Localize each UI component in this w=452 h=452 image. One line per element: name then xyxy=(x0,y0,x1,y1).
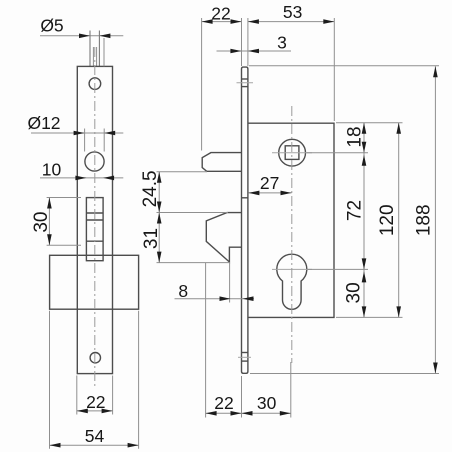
faceplate (right view) xyxy=(242,67,248,373)
wire: 31 extension line at hook tip xyxy=(157,262,231,264)
wire: 120 dimension line xyxy=(398,123,400,318)
wire: bottom extension lines xyxy=(205,263,207,418)
svg-text:24.5: 24.5 xyxy=(140,170,161,207)
latch bolt (upper hook) xyxy=(202,153,241,172)
wire: 10 dimension line xyxy=(40,177,123,179)
wire: 27 dimension line xyxy=(248,192,291,194)
wire: 3 dimension line xyxy=(217,50,292,52)
hole Ø12 xyxy=(85,152,104,171)
hidden hole lines in stem xyxy=(92,47,94,66)
wire: 8 dimension line xyxy=(175,298,255,300)
lock case body (right view) xyxy=(248,123,334,317)
screw slot top xyxy=(242,78,248,80)
wire: 30 left dimension line xyxy=(48,198,50,246)
spring channel (left view) xyxy=(86,198,103,261)
bolt stem (left view) xyxy=(89,31,91,67)
wire: 53 extension line at case edge xyxy=(333,18,335,121)
wire: faceplate extension lines up xyxy=(241,18,243,66)
wire: right horizontal extension lines xyxy=(249,65,439,67)
wire: 30 left extension lines xyxy=(47,197,81,199)
wire: bottom 30 dimension line xyxy=(242,412,291,414)
spindle horizontal centerline xyxy=(272,152,312,154)
wire: 22 bottom-left dimension line xyxy=(77,410,113,412)
wire: 18 dimension line xyxy=(363,123,365,153)
wire: top 22 dimension line xyxy=(202,21,242,23)
spindle hub circle xyxy=(279,139,306,166)
euro cylinder keyhole xyxy=(277,254,307,309)
wire: Ø12 dimension line xyxy=(31,132,123,134)
wire: top 22 extension line at hook tip xyxy=(201,18,203,151)
wire: 53 dimension line xyxy=(248,21,334,23)
centerline right view xyxy=(291,106,293,363)
svg-text:30: 30 xyxy=(31,212,52,233)
svg-text:30: 30 xyxy=(344,282,365,303)
wire: 22 bottom-left extension lines xyxy=(76,376,78,415)
hole Ø5 top xyxy=(89,78,101,90)
svg-text:3: 3 xyxy=(277,33,287,53)
wire: 54 dimension line xyxy=(50,444,139,446)
screw slot bottom centerline xyxy=(238,356,251,358)
svg-text:72: 72 xyxy=(345,200,366,221)
svg-text:30: 30 xyxy=(257,393,277,413)
wire: 188 dimension line xyxy=(434,66,436,373)
svg-text:22: 22 xyxy=(211,3,230,23)
svg-text:54: 54 xyxy=(85,426,105,446)
svg-text:18: 18 xyxy=(345,126,366,147)
svg-text:27: 27 xyxy=(260,173,279,193)
keyhole horizontal centerline xyxy=(272,268,312,270)
bolt body outline (left view) xyxy=(77,66,112,373)
svg-text:22: 22 xyxy=(86,392,105,412)
wire: 8 extension line xyxy=(229,263,231,303)
spindle square 8mm xyxy=(285,146,299,160)
svg-text:53: 53 xyxy=(283,2,302,22)
svg-text:31: 31 xyxy=(141,228,162,249)
hook bolt (lower) xyxy=(206,213,241,262)
slide block 54 wide (left view) xyxy=(50,255,139,309)
svg-text:Ø5: Ø5 xyxy=(40,16,63,36)
svg-text:188: 188 xyxy=(413,204,434,236)
wire: 54 extension lines xyxy=(49,311,51,449)
svg-text:8: 8 xyxy=(178,281,188,301)
wire: bottom 22 dimension line xyxy=(206,412,242,414)
faceplate joint line xyxy=(242,197,248,199)
wire: 24.5 dimension line xyxy=(158,172,160,213)
svg-text:Ø12: Ø12 xyxy=(27,113,60,133)
wire: Ø12 extension lines xyxy=(84,129,86,152)
wire: 30 right dimension line xyxy=(363,269,365,317)
svg-text:10: 10 xyxy=(42,160,62,180)
svg-text:22: 22 xyxy=(214,393,233,413)
wire: extension line right of stem xyxy=(103,38,105,66)
wire: 31 dimension line xyxy=(158,213,160,263)
screw slot bottom xyxy=(242,352,248,354)
wire: Ø5 dimension line xyxy=(40,35,123,37)
wire: 24.5 extension lines xyxy=(157,171,208,173)
screw slot top centerline xyxy=(237,82,254,84)
centerline left view xyxy=(94,47,96,389)
svg-text:120: 120 xyxy=(377,204,398,236)
screw hole bottom xyxy=(90,353,100,363)
wire: 72 dimension line xyxy=(363,153,365,270)
